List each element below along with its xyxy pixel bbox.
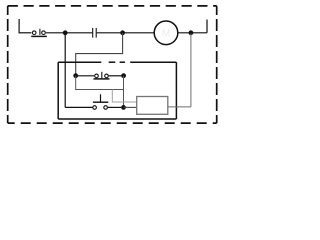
svg-text:M: M bbox=[162, 28, 170, 39]
